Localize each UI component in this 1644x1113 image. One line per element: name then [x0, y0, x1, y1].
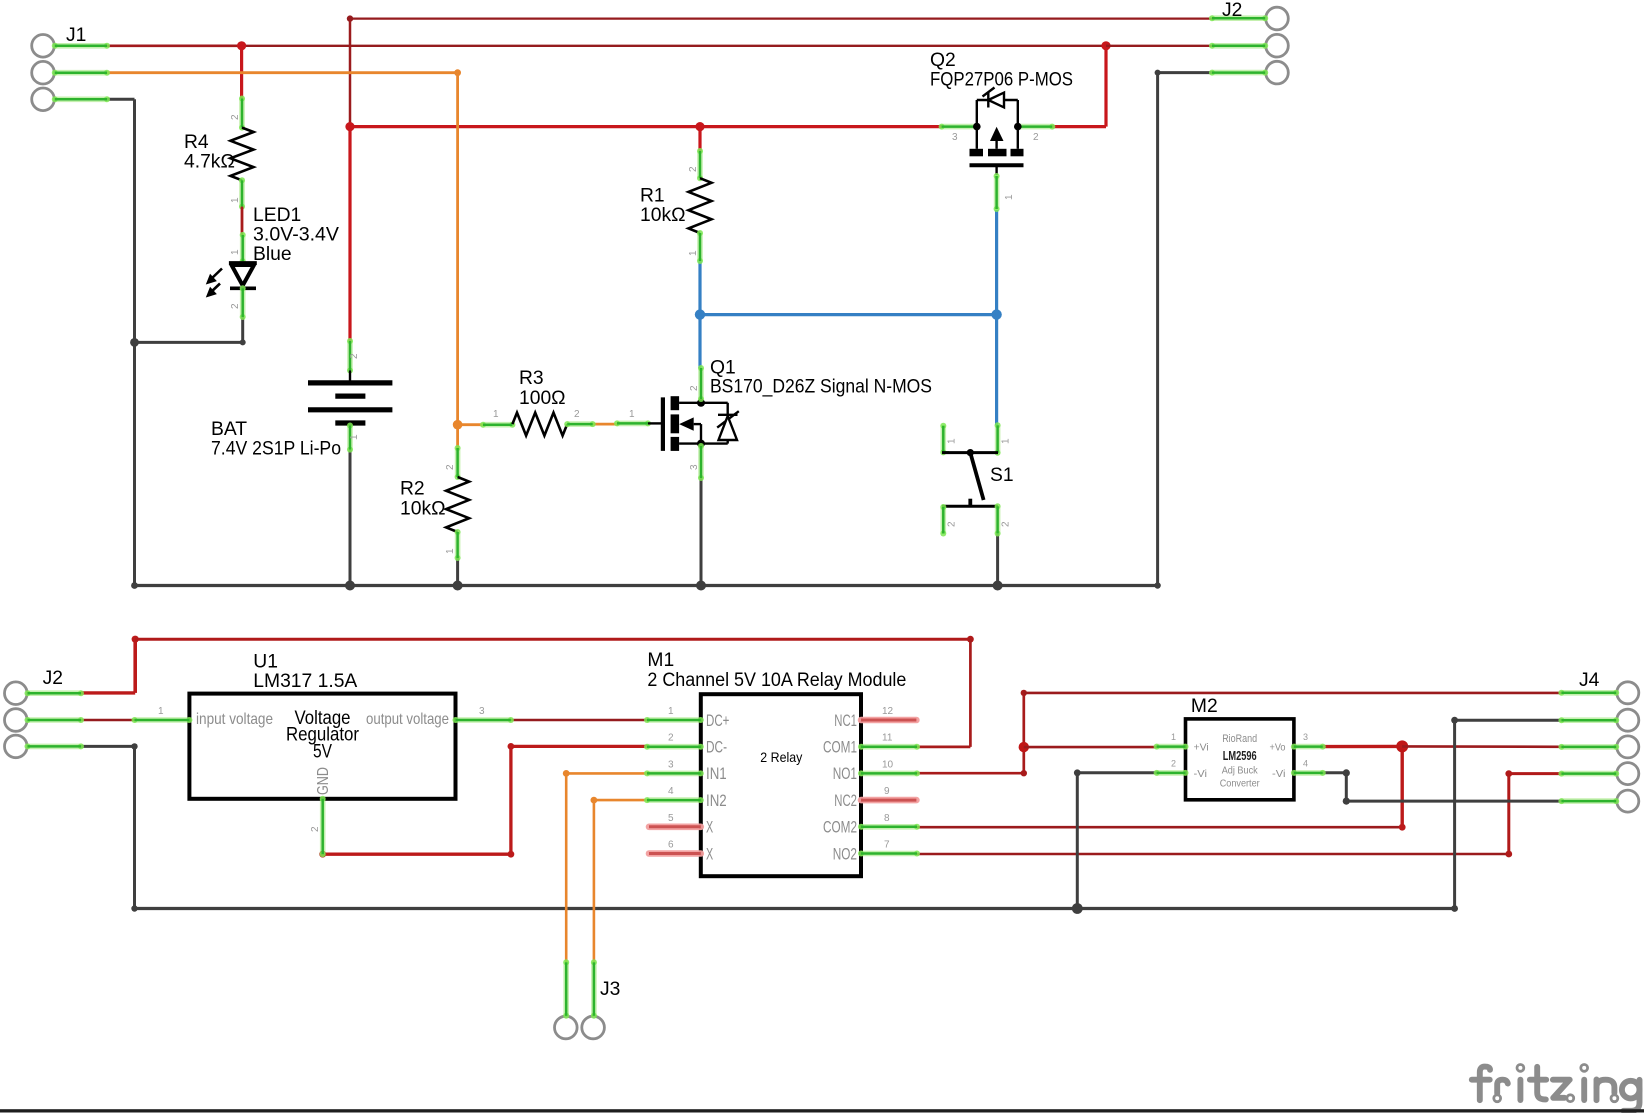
svg-text:2: 2 [668, 733, 674, 744]
node orange R3/R2 junction [453, 420, 463, 430]
node M2 +Vo junction [1396, 740, 1408, 752]
svg-text:2: 2 [230, 303, 241, 309]
svg-text:3: 3 [479, 706, 485, 717]
svg-text:BS170_D26Z Signal N-MOS: BS170_D26Z Signal N-MOS [710, 377, 932, 398]
node R4/J1 junction [237, 41, 246, 50]
svg-text:LM2596: LM2596 [1223, 749, 1257, 763]
transistor Q2 [930, 50, 1073, 212]
svg-text:4: 4 [1303, 759, 1308, 769]
svg-text:1: 1 [349, 434, 360, 440]
wire junction to J4 pin3 [1402, 745, 1561, 748]
wire blue junction down to Q1 drain [698, 315, 701, 368]
svg-text:-Vi: -Vi [1194, 768, 1208, 780]
svg-text:Q1: Q1 [710, 358, 736, 379]
wire blue up to Q2 gate [995, 210, 998, 315]
svg-text:RioRand: RioRand [1222, 733, 1257, 745]
svg-text:M2: M2 [1191, 696, 1218, 717]
svg-text:10kΩ: 10kΩ [400, 499, 446, 520]
connector J3 [555, 959, 621, 1039]
svg-text:2 Relay: 2 Relay [760, 750, 802, 765]
svg-text:4: 4 [668, 786, 674, 797]
connector J2 top right [1209, 0, 1288, 84]
svg-text:input voltage: input voltage [196, 711, 273, 728]
svg-text:-Vi: -Vi [1272, 768, 1286, 780]
svg-text:NO2: NO2 [833, 845, 857, 863]
op-amp U1 LM317 regulator box [132, 652, 514, 858]
svg-text:1: 1 [668, 706, 674, 717]
wire U1 GND to M1 DC- [323, 853, 511, 856]
svg-text:X: X [706, 845, 713, 863]
svg-text:3: 3 [952, 132, 958, 143]
svg-text:12: 12 [882, 706, 894, 717]
wire drain rail y=127 to Q2 [350, 125, 942, 128]
bottom window border [0, 1109, 1644, 1112]
svg-text:+Vo: +Vo [1270, 742, 1286, 754]
svg-text:1: 1 [688, 250, 699, 256]
svg-text:Blue: Blue [253, 244, 292, 265]
svg-text:2: 2 [230, 114, 241, 120]
svg-text:X: X [706, 819, 713, 837]
svg-text:IN1: IN1 [706, 765, 727, 783]
resistor R3 [480, 368, 596, 436]
wire junction to M2 +Vi [1024, 746, 1157, 749]
svg-text:2: 2 [688, 166, 699, 172]
node Q1 source bus junction [696, 581, 706, 591]
svg-text:1: 1 [230, 197, 241, 203]
svg-text:1: 1 [445, 548, 456, 554]
node R1 top junction [695, 122, 704, 131]
svg-text:2: 2 [1001, 521, 1012, 527]
wire M1 IN2 orange [594, 799, 647, 802]
svg-text:J2: J2 [1222, 0, 1242, 21]
svg-text:9: 9 [884, 786, 890, 797]
svg-text:output voltage: output voltage [366, 711, 449, 728]
connector J4 [1558, 670, 1638, 812]
battery BAT [211, 338, 392, 460]
svg-text:2: 2 [574, 409, 580, 420]
svg-text:1: 1 [1171, 732, 1176, 742]
node battery+/drain rail junction [345, 122, 354, 131]
wire J2 pin3 ground riser [81, 745, 135, 748]
wire battery+ riser x=350 [349, 19, 352, 127]
wire U1 output to M1 DC+ [511, 719, 647, 721]
node S1 bus junction [993, 581, 1003, 591]
wire J2 pin2 to U1 input [81, 719, 135, 721]
svg-text:R3: R3 [519, 368, 544, 389]
wire J2 pin1 riser to top rail [81, 691, 135, 694]
connector J2 bottom left [5, 668, 85, 758]
node orange corner [454, 69, 461, 76]
wire Q2 pin2 to riser [1052, 125, 1106, 128]
LED LED1 [208, 205, 339, 320]
svg-text:2: 2 [1171, 759, 1176, 769]
svg-text:FQP27P06 P-MOS: FQP27P06 P-MOS [930, 70, 1073, 91]
wire M1 IN1 orange [566, 772, 647, 775]
wire R4 junction down to R4 pin2 [240, 46, 243, 99]
svg-text:100Ω: 100Ω [519, 388, 566, 409]
svg-text:2 Channel 5V 10A Relay Module: 2 Channel 5V 10A Relay Module [647, 670, 906, 691]
node battery- bus junction [345, 581, 355, 591]
wire J2 pin3 down right side [1156, 73, 1159, 586]
wire ground riser x=134.5 [133, 99, 136, 585]
svg-text:2: 2 [947, 521, 958, 527]
svg-text:3: 3 [668, 759, 674, 770]
svg-text:COM2: COM2 [823, 819, 857, 837]
svg-text:GND: GND [315, 767, 332, 795]
svg-text:2: 2 [445, 464, 456, 470]
module M2 buck converter box [1154, 696, 1326, 800]
svg-text:4.7kΩ: 4.7kΩ [184, 152, 235, 173]
svg-text:R2: R2 [400, 479, 425, 500]
resistor R2 [400, 445, 469, 561]
wire R4 pin1 to LED1 anode [241, 207, 244, 235]
svg-text:10: 10 [882, 759, 894, 770]
wire riser to J4 pin4 [1509, 772, 1562, 775]
svg-text:2: 2 [1033, 132, 1039, 143]
connector J1 [32, 25, 110, 111]
svg-text:1: 1 [158, 706, 164, 717]
svg-text:M1: M1 [647, 650, 674, 671]
wire LED cathode to ground riser [241, 317, 244, 342]
wire blue down to S1 [995, 315, 998, 426]
svg-text:3: 3 [689, 464, 700, 470]
wire J1 pin3 to ground riser [107, 98, 135, 101]
wire J1 pin2 orange to corner [107, 71, 458, 74]
wire riser x=1106 to J2 pin2 line [1104, 46, 1107, 127]
svg-text:IN2: IN2 [706, 792, 727, 810]
wire M1 COM1 riser to top rail [917, 746, 970, 749]
wire R1 bottom blue [698, 261, 701, 315]
svg-text:5V: 5V [313, 741, 332, 762]
svg-text:5: 5 [668, 813, 674, 824]
svg-text:LM317 1.5A: LM317 1.5A [253, 671, 357, 692]
wire M2 -Vi left from ground [1074, 769, 1081, 776]
svg-text:7: 7 [884, 840, 890, 851]
svg-text:8: 8 [884, 813, 890, 824]
wire J1 pin1 to R4 top [107, 44, 242, 47]
wire blue horizontal [700, 313, 997, 316]
node M2 ground junction [1072, 903, 1083, 914]
wire ground bus top section [135, 584, 1158, 587]
fritzing logo [1472, 1067, 1640, 1111]
svg-text:1: 1 [629, 409, 635, 420]
svg-text:2: 2 [349, 353, 360, 359]
wire M1 COM2 to riser [917, 826, 1402, 829]
wire J4 pin2 ground [1453, 720, 1456, 908]
svg-text:NO1: NO1 [833, 765, 857, 783]
wire battery bottom to bus [349, 450, 352, 586]
svg-text:DC+: DC+ [706, 712, 729, 730]
wire M1 NO2 to riser [917, 853, 1509, 856]
svg-text:6: 6 [668, 840, 674, 851]
svg-text:1: 1 [493, 409, 499, 420]
svg-text:S1: S1 [990, 465, 1014, 486]
svg-text:LED1: LED1 [253, 205, 301, 226]
svg-text:3.0V-3.4V: 3.0V-3.4V [253, 225, 339, 246]
svg-text:R4: R4 [184, 132, 209, 153]
resistor R1 [640, 148, 712, 264]
wire junction to J2 pin2 [1106, 45, 1212, 47]
wire M2 -Vo jog to J4 pin5 [1323, 771, 1347, 774]
svg-text:1: 1 [1001, 438, 1012, 444]
wire Q1 source to bus [700, 478, 703, 586]
svg-text:NC2: NC2 [834, 792, 857, 810]
svg-text:Q2: Q2 [930, 50, 956, 71]
wire R1 top stub [698, 127, 701, 151]
svg-text:Converter: Converter [1220, 777, 1260, 789]
wire battery+ to J2 top (net VBAT top rail) [350, 17, 1212, 19]
svg-text:U1: U1 [253, 652, 278, 673]
resistor R4 [184, 96, 254, 210]
wire S1 pin2 to bus [996, 534, 999, 586]
svg-text:J4: J4 [1579, 670, 1600, 691]
svg-text:11: 11 [882, 733, 893, 744]
wire M1 NO1 to J4 pin1 [917, 772, 1024, 775]
svg-text:+Vi: +Vi [1194, 742, 1209, 754]
svg-text:J1: J1 [66, 25, 86, 46]
svg-text:10kΩ: 10kΩ [640, 205, 686, 226]
transistor Q1 [614, 358, 932, 482]
svg-text:DC-: DC- [706, 739, 727, 757]
svg-text:1: 1 [947, 438, 958, 444]
svg-text:COM1: COM1 [823, 739, 857, 757]
svg-text:NC1: NC1 [834, 712, 857, 730]
svg-text:1: 1 [1004, 194, 1015, 200]
svg-text:2: 2 [310, 826, 321, 832]
svg-text:3: 3 [1303, 732, 1308, 742]
node NO1/+Vi junction [1019, 742, 1029, 752]
svg-text:1: 1 [230, 249, 241, 255]
switch S1 [940, 422, 1013, 536]
wire bottom ground bus [135, 907, 1455, 910]
svg-text:BAT: BAT [211, 419, 247, 440]
wire R3 pin2 to Q1 gate [593, 423, 618, 426]
wire top rail y=639 to COM1 riser [135, 638, 970, 641]
wire orange junction to R3 pin1 [458, 423, 483, 426]
svg-text:R1: R1 [640, 186, 665, 207]
module M1 relay box [644, 650, 920, 876]
svg-text:Adj Buck: Adj Buck [1222, 764, 1259, 776]
svg-text:7.4V 2S1P Li-Po: 7.4V 2S1P Li-Po [211, 439, 341, 460]
node R2 bus junction [453, 581, 463, 591]
wire M2 +Vo to junction [1323, 745, 1402, 749]
node LED return junction [130, 338, 139, 347]
wire orange riser x=457.6 [456, 73, 459, 450]
wire R4 junction to J2 pin2 [242, 45, 1106, 47]
svg-text:J2: J2 [43, 668, 63, 689]
svg-text:J3: J3 [600, 979, 620, 1000]
wire R2 bottom to bus [456, 558, 459, 586]
